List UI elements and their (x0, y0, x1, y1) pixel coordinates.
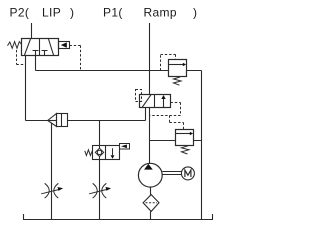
svg-text:P2(: P2( (10, 5, 30, 19)
svg-text:): ) (193, 5, 197, 19)
svg-text:LIP: LIP (42, 5, 61, 19)
svg-text:): ) (70, 5, 74, 19)
svg-text:Ramp: Ramp (144, 5, 177, 19)
svg-text:P1(: P1( (103, 5, 123, 19)
